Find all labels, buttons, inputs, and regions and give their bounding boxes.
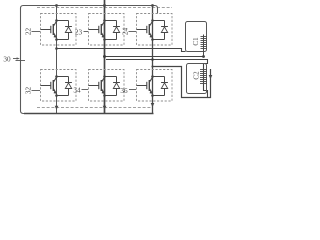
svg-text:36: 36 bbox=[120, 87, 128, 95]
svg-text:24: 24 bbox=[122, 28, 130, 36]
svg-text:C1: C1 bbox=[192, 37, 200, 46]
svg-text:22: 22 bbox=[25, 28, 33, 36]
svg-text:C2: C2 bbox=[193, 71, 201, 80]
svg-text:32: 32 bbox=[25, 87, 33, 95]
svg-text:23: 23 bbox=[75, 29, 83, 37]
svg-text:30: 30 bbox=[3, 55, 11, 63]
svg-text:34: 34 bbox=[73, 87, 81, 95]
